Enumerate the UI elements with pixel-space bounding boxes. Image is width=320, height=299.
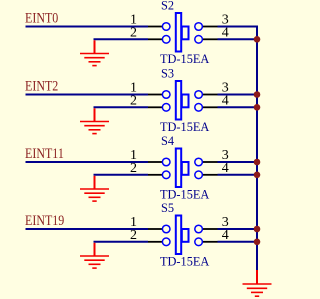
svg-text:EINT11: EINT11 [25, 145, 64, 162]
wire switch pin 3 to bus [218, 26, 259, 28]
junction pin 3 row 4 [254, 226, 261, 233]
junction pin 4 row 3 [254, 172, 261, 179]
svg-text:4: 4 [222, 228, 229, 243]
ground GND row 3 [80, 176, 109, 201]
junction pin 3 row 3 [254, 159, 261, 166]
svg-text:4: 4 [222, 25, 229, 40]
wire ground to switch pin 2 [94, 241, 149, 243]
junction pin 3 row 2 [254, 91, 261, 98]
svg-text:S3: S3 [161, 66, 174, 80]
ground GND row 1 [80, 40, 109, 65]
ground GND row 4 [80, 243, 109, 268]
wire EINT19 to switch pin 1 [26, 228, 149, 230]
switch S2 body [148, 13, 218, 52]
wire switch pin 4 to bus [218, 38, 259, 40]
wire bus vertical [256, 26, 258, 271]
svg-text:2: 2 [130, 93, 137, 108]
switch S5 body [148, 216, 218, 255]
junction pin 4 row 4 [254, 239, 261, 246]
junction pin 4 row 1 [254, 36, 261, 43]
svg-text:4: 4 [222, 93, 229, 108]
ground bottom bus [243, 270, 272, 296]
wire switch pin 3 to bus [218, 228, 259, 230]
svg-text:EINT2: EINT2 [25, 77, 58, 94]
svg-text:TD-15EA: TD-15EA [160, 254, 210, 268]
wire switch pin 4 to bus [218, 241, 259, 243]
switch S4 body [148, 149, 218, 188]
wire ground to switch pin 2 [94, 174, 149, 176]
wire switch pin 4 to bus [218, 174, 259, 176]
wire ground to switch pin 2 [94, 38, 149, 40]
svg-text:EINT19: EINT19 [25, 212, 64, 229]
svg-text:TD-15EA: TD-15EA [160, 187, 210, 201]
svg-text:S2: S2 [161, 0, 174, 13]
wire switch pin 3 to bus [218, 161, 259, 163]
svg-text:4: 4 [222, 161, 229, 176]
junction pin 4 row 2 [254, 104, 261, 111]
svg-text:TD-15EA: TD-15EA [160, 120, 210, 134]
switch S3 body [148, 81, 218, 120]
wire EINT0 to switch pin 1 [26, 26, 149, 28]
wire EINT2 to switch pin 1 [26, 94, 149, 96]
ground GND row 2 [80, 108, 109, 133]
wire switch pin 4 to bus [218, 106, 259, 108]
svg-text:S4: S4 [161, 134, 175, 148]
svg-text:2: 2 [130, 161, 137, 176]
svg-text:TD-15EA: TD-15EA [160, 52, 210, 66]
wire EINT11 to switch pin 1 [26, 161, 149, 163]
wire switch pin 3 to bus [218, 94, 259, 96]
svg-text:EINT0: EINT0 [25, 9, 58, 26]
svg-text:S5: S5 [161, 201, 174, 215]
wire ground to switch pin 2 [94, 106, 149, 108]
svg-text:2: 2 [130, 228, 137, 243]
svg-text:2: 2 [130, 25, 137, 40]
